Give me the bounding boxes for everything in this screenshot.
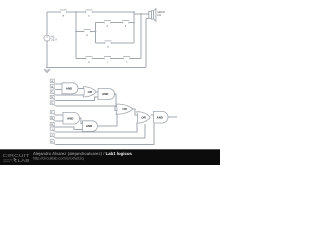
svg-text:C: C [51, 91, 53, 94]
svg-text:D: D [51, 96, 53, 99]
svg-text:LAB: LAB [18, 158, 30, 163]
svg-text:K: K [51, 141, 53, 144]
svg-text:B: B [51, 85, 53, 88]
svg-text:12 V: 12 V [51, 39, 57, 42]
svg-text:AND: AND [102, 92, 108, 96]
svg-text:J: J [126, 61, 127, 64]
svg-text:H: H [51, 123, 53, 126]
svg-text:AND: AND [67, 116, 73, 120]
svg-text:G: G [107, 46, 109, 49]
svg-text:8 Ω: 8 Ω [157, 14, 161, 17]
svg-text:AND: AND [86, 124, 92, 128]
svg-text:Alejandro Alvarez (alejandroal: Alejandro Alvarez (alejandroalvarez) / L… [33, 151, 132, 156]
svg-text:AND: AND [157, 115, 163, 119]
svg-text:G: G [51, 117, 53, 120]
svg-text:A: A [51, 80, 53, 83]
svg-text:http://circuitlab.com/c/cxfw22: http://circuitlab.com/c/cxfw22q [33, 157, 84, 161]
svg-text:E: E [51, 102, 53, 105]
svg-text:AND: AND [66, 86, 72, 90]
